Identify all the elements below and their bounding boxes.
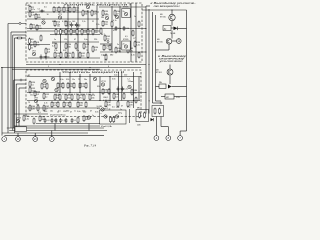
svg-text:10к: 10к — [57, 26, 60, 28]
wire b1 tall vert B — [135, 3, 137, 62]
wire b1 right mid — [100, 43, 112, 45]
terminal X3 — [33, 137, 38, 142]
resistor R19 — [91, 10, 98, 17]
fuse F1 (box) — [163, 26, 171, 31]
svg-text:15к: 15к — [67, 97, 70, 99]
resistor R20 — [55, 28, 57, 35]
wire b1 bus 3 — [50, 34, 100, 36]
resistor R33 — [87, 52, 89, 59]
resistor R88 — [117, 101, 119, 108]
svg-text:910: 910 — [63, 50, 66, 52]
svg-text:5,6к: 5,6к — [77, 111, 81, 113]
resistor R28 — [54, 52, 61, 59]
resistor R63 — [57, 82, 64, 89]
svg-text:2,2к: 2,2к — [56, 55, 60, 57]
capacitor C15 — [71, 118, 77, 123]
transistor VT14 — [87, 116, 90, 119]
svg-text:47: 47 — [74, 39, 76, 41]
module box A2 power amplifier II (dashed outline) — [26, 70, 141, 117]
svg-text:1к: 1к — [92, 115, 94, 117]
resistor R35 — [55, 43, 57, 50]
resistor R72 — [71, 94, 73, 101]
svg-text:910: 910 — [97, 86, 100, 88]
resistor R3 — [35, 13, 42, 20]
svg-text:1,5к: 1,5к — [31, 14, 35, 16]
resistor R13 — [63, 6, 70, 13]
wire b1 tall vert A — [130, 3, 132, 62]
resistor R41 — [123, 10, 130, 17]
transistor VT8 — [34, 98, 39, 103]
resistor R50 — [134, 41, 141, 48]
capacitor C12 — [55, 118, 58, 123]
junction ring J2 — [20, 79, 22, 81]
svg-text:1,5к: 1,5к — [62, 94, 66, 96]
wire right bus 1 stub — [146, 5, 150, 7]
resistor R53a — [105, 54, 107, 61]
resistor R30 — [65, 52, 72, 59]
wire to A2 in 3 — [19, 87, 26, 89]
wire b2 vert 3 — [79, 74, 81, 93]
svg-text:176мк: 176мк — [128, 81, 134, 83]
diode VD1 — [151, 118, 154, 121]
svg-text:ч: ч — [101, 113, 102, 115]
resistor R8 — [34, 41, 40, 48]
resistor R93 — [33, 118, 35, 125]
svg-text:330: 330 — [44, 111, 47, 113]
resistor R87 — [105, 101, 112, 108]
wire to output stage — [142, 9, 187, 11]
svg-text:КТ805: КТ805 — [123, 39, 128, 41]
svg-text:5,6к: 5,6к — [107, 104, 111, 106]
wire cluster top — [156, 100, 162, 102]
resistor R26 — [87, 28, 89, 35]
svg-text:100: 100 — [72, 21, 75, 23]
svg-text:10к: 10к — [50, 110, 53, 112]
wire b1 row c — [27, 18, 99, 20]
wire bottom strip top — [14, 113, 48, 115]
svg-text:0,5: 0,5 — [67, 26, 70, 28]
wire stub X7 — [155, 117, 157, 136]
capacitor C6 — [115, 26, 122, 31]
resistor R91 — [23, 115, 30, 122]
transistor VT10a — [55, 88, 58, 91]
svg-text:5,6к: 5,6к — [84, 39, 88, 41]
wire b1 lower bus — [28, 57, 100, 59]
transistor VT9 — [43, 79, 46, 82]
resistor R85 — [123, 93, 125, 100]
resistor R54 — [29, 81, 36, 88]
svg-text:2,2к: 2,2к — [124, 89, 128, 91]
terminal X4 — [49, 137, 54, 142]
svg-text:51: 51 — [92, 21, 94, 23]
svg-text:2,2к: 2,2к — [96, 24, 100, 26]
resistor R2 — [29, 11, 35, 18]
svg-text:1к: 1к — [54, 39, 56, 41]
svg-text:2к: 2к — [117, 44, 119, 46]
svg-text:2п: 2п — [123, 11, 125, 13]
transistor VT12 — [128, 85, 131, 88]
filter block Z2 (outline) — [136, 110, 149, 122]
svg-text:2,2к: 2,2к — [86, 94, 90, 96]
node J1a — [1, 67, 2, 68]
svg-text:75: 75 — [28, 102, 30, 104]
resistor R36 — [65, 43, 72, 50]
wire bottom strip bus — [14, 125, 100, 127]
svg-text:1к: 1к — [85, 46, 87, 48]
wire input 1 horizontal — [8, 23, 26, 25]
svg-text:0,15: 0,15 — [74, 94, 78, 96]
transistor VT1 — [42, 19, 47, 24]
wire b1 top feed — [99, 6, 146, 8]
svg-text:0,15: 0,15 — [62, 21, 66, 23]
wire stub X4 — [51, 131, 53, 137]
svg-text:1ом 2: 1ом 2 — [103, 108, 108, 110]
wire b1 vert 2 — [77, 5, 79, 58]
svg-text:10к: 10к — [81, 55, 84, 57]
wire input 3 horizontal — [13, 34, 26, 36]
svg-text:910: 910 — [66, 79, 69, 81]
jumper block on bus — [15, 127, 27, 132]
svg-text:С7: С7 — [133, 38, 135, 40]
svg-text:3,9к: 3,9к — [54, 50, 58, 52]
wire b2 bottom bus — [27, 107, 100, 109]
resistor R58 — [46, 83, 48, 90]
resistor R52 — [138, 21, 140, 28]
wire strip drop 2 — [88, 124, 90, 131]
resistor R25 — [81, 28, 88, 35]
transistor VT5 — [105, 15, 110, 20]
wire A2 in 3 vertical — [18, 88, 20, 126]
transistor VT19 — [167, 69, 173, 75]
resistor R94 — [77, 117, 79, 124]
svg-text:24к: 24к — [91, 97, 94, 99]
wire b2 top bus — [27, 76, 141, 78]
svg-text:15к: 15к — [72, 79, 75, 81]
resistor R21 — [60, 28, 67, 35]
wire bottom bus 2 — [4, 135, 104, 137]
wire b1 vert 6 — [119, 6, 121, 52]
svg-text:1,5к: 1,5к — [65, 105, 69, 107]
resistor R38 — [83, 43, 90, 50]
svg-text:3,9к: 3,9к — [81, 86, 85, 88]
svg-text:3,9к: 3,9к — [95, 111, 99, 113]
wire interconnect 2 — [1, 67, 141, 69]
resistor R39 — [102, 10, 109, 17]
wire between blocks — [129, 109, 131, 123]
resistor R66 — [73, 82, 75, 89]
resistor R18 — [82, 10, 89, 17]
svg-text:1к: 1к — [109, 109, 111, 111]
resistor R46 — [103, 44, 110, 51]
resistor R57 — [41, 83, 48, 90]
svg-text:47мкФ 47мкФ 1мк: 47мкФ 47мкФ 1мк — [50, 114, 66, 117]
resistor R86 — [131, 89, 138, 96]
svg-text:6: 6 — [108, 66, 109, 68]
wire A2 in 2 vertical — [15, 84, 17, 131]
resistor R95 — [83, 115, 90, 122]
resistor R15 — [73, 6, 80, 13]
resistor R11 — [53, 6, 60, 13]
relay contact K1 — [159, 84, 172, 89]
svg-text:47: 47 — [121, 106, 123, 108]
wire stub X3 — [34, 133, 36, 137]
resistor R97 — [113, 116, 115, 123]
capacitor C10 — [44, 118, 52, 123]
wire meter right — [174, 96, 187, 98]
resistor R68 — [85, 82, 87, 89]
capacitor C5 — [75, 23, 81, 28]
wire b2 vert 5 — [99, 77, 101, 101]
wire VT17 to VT18 — [171, 31, 173, 39]
transistor VT2 — [32, 51, 37, 56]
resistor R101 — [159, 108, 161, 115]
sub-block outline (output network) — [152, 106, 164, 117]
svg-text:0,5: 0,5 — [97, 108, 100, 110]
resistor R42 — [102, 20, 109, 27]
resistor R5 — [36, 24, 43, 31]
resistor R99 — [144, 112, 146, 119]
wire bend X5 — [180, 130, 186, 132]
svg-text:4,7к: 4,7к — [56, 94, 60, 96]
resistor Rin — [16, 37, 22, 39]
sub-module D2 (boxed transistor) — [122, 41, 130, 50]
resistor R17 — [65, 20, 72, 27]
wire bottom bus 1 — [2, 132, 88, 134]
svg-text:47: 47 — [113, 30, 115, 32]
svg-text:75: 75 — [78, 79, 80, 81]
wire input 4 vertical — [14, 38, 16, 133]
terminal X5 — [178, 136, 183, 141]
svg-text:24к: 24к — [84, 13, 87, 15]
resistor R81 — [85, 101, 87, 108]
resistor R60 — [29, 105, 36, 112]
svg-text:24к: 24к — [101, 17, 104, 19]
resistor R71 — [65, 94, 72, 101]
wire b2 vert 7 — [118, 72, 120, 101]
wire b2 vert 2 — [69, 72, 71, 93]
meter PA1 — [165, 94, 174, 99]
svg-text:4,7к: 4,7к — [53, 105, 57, 107]
wire bottom bus 4 — [9, 130, 107, 132]
svg-text:усилителю: усилителю — [158, 60, 183, 63]
wire stub X2 — [17, 133, 19, 137]
wire VD2 right — [178, 27, 187, 29]
wire far right vertical — [186, 10, 188, 131]
resistor R84 — [113, 93, 120, 100]
wire input 1 vertical — [7, 24, 9, 134]
resistor R14 — [69, 6, 71, 13]
resistor R67 — [79, 82, 86, 89]
svg-text:120: 120 — [64, 39, 67, 41]
resistor R47 — [109, 44, 111, 51]
resistor R55 — [29, 87, 36, 94]
wire b1 vert 1 — [67, 5, 69, 58]
resistor R59 — [43, 93, 50, 100]
resistor R69 — [54, 94, 61, 101]
wire input 5 vertical — [1, 68, 3, 136]
svg-text:0,15: 0,15 — [131, 55, 135, 57]
svg-text:100: 100 — [104, 60, 107, 62]
svg-text:Рис. 7.14: Рис. 7.14 — [83, 143, 97, 147]
module box A1 power amplifier I (dashed outline) — [26, 3, 142, 62]
svg-text:СВ0,1: СВ0,1 — [103, 97, 108, 99]
wire b1 right lower — [100, 51, 146, 53]
wire right bus 1 — [145, 6, 147, 114]
junction ring J1 — [19, 22, 21, 24]
resistor R76 — [51, 101, 58, 108]
wire b1 vert 3b — [59, 35, 61, 59]
svg-text:47мкФ 0,5Вт: 47мкФ 0,5Вт — [101, 125, 112, 128]
transistor VT16 — [115, 115, 118, 118]
resistor R73 — [77, 94, 84, 101]
svg-text:220: 220 — [124, 74, 127, 76]
wire b2 vert 6 — [109, 77, 111, 101]
wire VT18 emitter down — [168, 44, 170, 50]
svg-text:Пр 4В: Пр 4В — [170, 33, 176, 35]
svg-text:3,9к: 3,9к — [118, 28, 122, 30]
svg-text:75: 75 — [86, 50, 88, 52]
svg-text:лю мощности: лю мощности — [152, 5, 180, 8]
wire F1 to VD2 — [171, 27, 174, 29]
transistor VT4 — [86, 4, 91, 9]
transistor VT17 — [169, 14, 175, 20]
resistor R74 — [83, 94, 85, 101]
transistor VT15 — [104, 115, 107, 118]
capacitor C14 — [65, 118, 68, 123]
terminal X2 — [16, 137, 21, 142]
resistor R51 — [132, 30, 134, 37]
svg-text:680: 680 — [110, 55, 113, 57]
wire bottom bus 3 — [7, 127, 104, 129]
wire stub X5 — [179, 131, 181, 136]
wire b1 vert 5 — [111, 6, 113, 52]
svg-text:120: 120 — [116, 107, 119, 109]
resistor R77 — [57, 101, 59, 108]
resistor R40 — [114, 10, 121, 17]
wire bend X6 — [161, 126, 168, 128]
resistor R16 — [54, 20, 61, 27]
terminal X6 — [166, 136, 171, 141]
resistor R65 — [67, 82, 74, 89]
resistor R24 — [76, 28, 78, 35]
wire VT17 emitter — [171, 21, 173, 26]
svg-text:КТ361: КТ361 — [156, 72, 163, 74]
svg-text:220: 220 — [83, 112, 86, 114]
transistor VT10b — [101, 108, 104, 111]
resistor R27 — [92, 28, 99, 35]
wire b1 bus 2 — [27, 30, 100, 32]
capacitor C9 — [121, 87, 128, 92]
svg-text:±4,7: ±4,7 — [101, 34, 105, 36]
wire right bus 4 — [155, 15, 157, 101]
resistor R78 — [63, 101, 70, 108]
resistor R96 — [110, 116, 112, 123]
svg-text:47: 47 — [90, 110, 92, 112]
svg-text:КТ315: КТ315 — [157, 41, 164, 43]
svg-text:0,5: 0,5 — [125, 36, 128, 38]
svg-text:1к: 1к — [57, 112, 59, 114]
wire K1 out — [172, 86, 187, 88]
diode VD2 — [174, 27, 178, 31]
wire input 2 vertical — [10, 32, 12, 128]
svg-text:15к: 15к — [76, 50, 79, 52]
junction ring J4 — [160, 102, 162, 104]
svg-text:680: 680 — [68, 94, 71, 96]
transistor VT6 — [115, 15, 118, 18]
svg-text:330: 330 — [66, 110, 69, 112]
svg-text:10: 10 — [47, 14, 49, 16]
transistor VT18 — [166, 39, 172, 45]
svg-text:220: 220 — [94, 39, 97, 41]
capacitor C11 — [51, 118, 58, 123]
svg-text:330: 330 — [77, 26, 80, 28]
resistor R45 — [104, 35, 111, 42]
wire to A2 in 1 — [14, 79, 26, 81]
resistor R10 — [40, 35, 42, 42]
resistor R83 — [108, 88, 110, 95]
svg-text:4,7к: 4,7к — [113, 20, 117, 22]
resistor R7 — [29, 44, 35, 51]
wire b1 vert 4 — [96, 5, 98, 29]
resistor R48 — [115, 47, 122, 54]
svg-text:КТ805: КТ805 — [123, 7, 128, 9]
capacitor C4 — [70, 23, 76, 28]
resistor R4 — [30, 23, 37, 30]
resistor R70 — [59, 94, 61, 101]
wire b2 mid bus — [27, 92, 146, 94]
capacitor C1 — [40, 10, 45, 13]
wire b1 vert 3 — [87, 10, 89, 58]
wire b2 low bus — [27, 100, 140, 102]
wire stub X6 — [167, 127, 169, 136]
svg-text:4,7к: 4,7к — [31, 9, 35, 11]
sub-module D1 (boxed transistor) — [122, 9, 130, 18]
svg-text:4,7к: 4,7к — [93, 13, 97, 15]
svg-text:680: 680 — [52, 21, 55, 23]
wire down to VT19 — [169, 65, 171, 70]
capacitor C7 — [123, 26, 130, 31]
junction ring J3 — [107, 41, 109, 43]
resistor R31 — [72, 52, 74, 59]
transistor VT11 — [101, 81, 107, 86]
svg-text:15к: 15к — [30, 95, 33, 97]
resistor R80 — [77, 101, 84, 108]
transistor VT13 — [16, 118, 22, 123]
resistor R12 — [58, 6, 65, 13]
resistor R92 — [39, 115, 46, 122]
wire b2 vert 4 — [89, 74, 91, 93]
resistor R29 — [60, 52, 62, 59]
wire VT17 collector — [171, 10, 173, 14]
svg-text:100: 100 — [80, 94, 83, 96]
wire interconnect 1 — [26, 64, 146, 66]
resistor R44 — [100, 28, 102, 35]
svg-text:0,5: 0,5 — [112, 107, 115, 109]
wire b1 bus 4 — [52, 41, 99, 43]
wire VT19 down — [169, 75, 171, 84]
wire input 4 horizontal — [15, 37, 27, 39]
wire VT18 to bus — [156, 49, 170, 51]
resistor R22 — [65, 28, 67, 35]
resistor R56 — [34, 90, 41, 97]
svg-text:5,6к: 5,6к — [114, 74, 118, 76]
svg-text:3,9к: 3,9к — [60, 79, 64, 81]
svg-text:15к: 15к — [106, 38, 109, 40]
resistor R61 — [37, 105, 39, 112]
resistor R89 — [127, 101, 134, 108]
transistor VT10 — [93, 77, 96, 80]
svg-text:5,6к: 5,6к — [65, 10, 69, 12]
